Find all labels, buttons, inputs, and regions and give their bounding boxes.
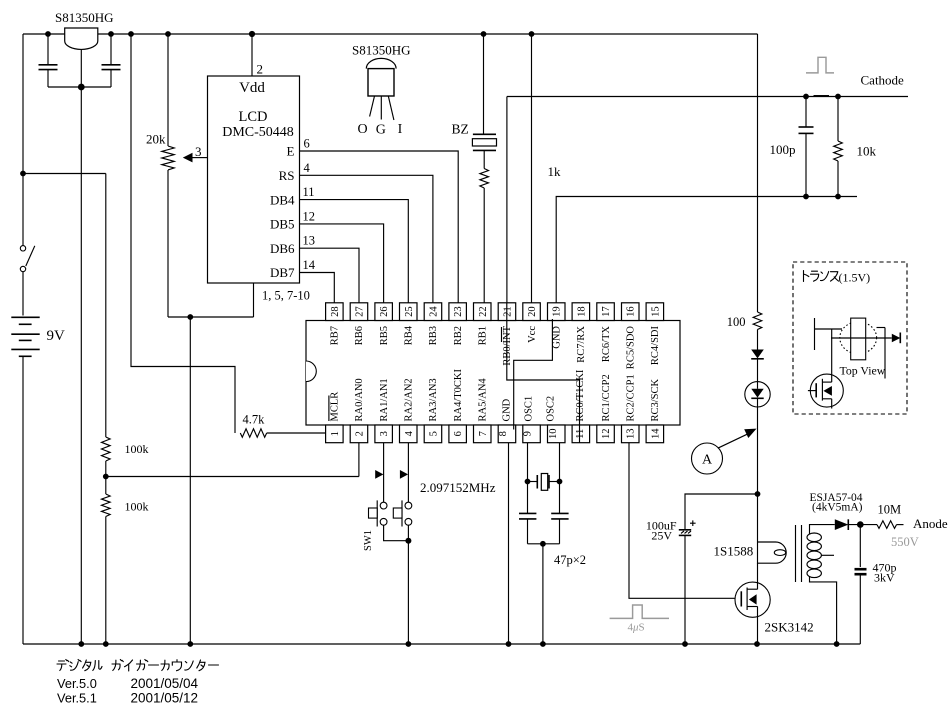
svg-text:RB7: RB7: [330, 326, 341, 345]
svg-text:1, 5, 7-10: 1, 5, 7-10: [262, 289, 310, 303]
svg-text:19: 19: [552, 306, 563, 317]
svg-text:1: 1: [330, 431, 341, 436]
svg-text:3: 3: [195, 144, 202, 159]
transformer pictorial bobbin: [851, 318, 866, 360]
svg-text:4: 4: [404, 430, 415, 436]
switch SW1a pushbutton: [380, 502, 387, 509]
svg-text:S81350HG: S81350HG: [352, 43, 411, 58]
svg-text:2001/05/12: 2001/05/12: [131, 691, 199, 706]
label transformer 1.5V (katakana drawn): [804, 271, 809, 282]
svg-text:OSC1: OSC1: [524, 396, 535, 422]
svg-text:GND: GND: [552, 326, 563, 349]
wire 0V ground rail: [23, 643, 860, 645]
wire PIC pin8 GND to 0V rail: [508, 443, 510, 644]
wire Vdd rail to LCD pin 2: [251, 34, 253, 76]
svg-text:RC0/T1CKI: RC0/T1CKI: [575, 369, 586, 421]
wire buzzer to 1k resistor: [483, 150, 485, 168]
svg-text:Top View: Top View: [840, 364, 886, 378]
svg-text:2: 2: [354, 431, 365, 436]
svg-text:E: E: [287, 144, 295, 159]
svg-text:6: 6: [304, 137, 310, 151]
svg-text:RS: RS: [279, 168, 295, 183]
svg-text:24: 24: [428, 306, 439, 317]
svg-text:G: G: [376, 123, 386, 138]
regulator TO-92 package head: [366, 58, 396, 68]
svg-text:S81350HG: S81350HG: [55, 10, 114, 25]
node crystal junction dots: [525, 479, 531, 485]
transformer pictorial axis wire: [831, 337, 892, 339]
battery BT 9V plates: [11, 316, 39, 318]
svg-text:28: 28: [330, 306, 341, 317]
svg-text:9V: 9V: [47, 328, 66, 344]
svg-text:RA4/T0CKI: RA4/T0CKI: [453, 368, 464, 421]
regulator TO-92 legs: [370, 96, 375, 117]
wire 100 to diode: [757, 330, 759, 350]
wire between 100k resistors: [105, 461, 107, 494]
svg-text:OSC2: OSC2: [546, 396, 557, 422]
svg-text:20: 20: [527, 306, 538, 317]
svg-text:RA0/AN0: RA0/AN0: [354, 378, 365, 421]
wire SW common to 0V rail: [407, 525, 409, 644]
svg-text:13: 13: [303, 234, 316, 248]
wire regulator gnd down to 0V rail: [80, 87, 82, 644]
node junction dots on +V rail: [45, 31, 51, 37]
svg-text:LCD: LCD: [239, 109, 268, 125]
transformer pictorial toroid: [840, 322, 877, 354]
svg-text:6: 6: [453, 431, 464, 436]
svg-text:Ver.5.0: Ver.5.0: [57, 676, 97, 691]
node cathode net dots: [803, 94, 809, 100]
svg-text:100k: 100k: [125, 442, 149, 456]
resistor R 1k: [480, 169, 489, 189]
resistor R 100k lower: [102, 494, 111, 516]
wire 1k to PIC pin22: [483, 188, 485, 303]
wire PIC pin13 to MOSFET gate: [629, 443, 741, 599]
svg-text:4μS: 4μS: [628, 622, 645, 634]
svg-text:DB7: DB7: [270, 265, 295, 280]
diode pictorial on axis: [892, 334, 901, 343]
svg-text:RB2: RB2: [453, 326, 464, 345]
wire switch to battery: [22, 272, 24, 316]
svg-text:10k: 10k: [857, 144, 877, 159]
svg-text:DMC-50448: DMC-50448: [222, 125, 294, 140]
svg-text:2: 2: [257, 62, 264, 77]
wire LCD DB4 to PIC pin25: [300, 200, 409, 303]
crystal X 2.097152MHz: [528, 481, 538, 483]
svg-text:RC7/RX: RC7/RX: [576, 326, 587, 363]
wire top +V rail: [23, 33, 758, 35]
svg-text:RC2/CCP1: RC2/CCP1: [625, 374, 636, 421]
title geiger counter (katakana drawn): [112, 660, 123, 671]
svg-text:20k: 20k: [146, 132, 166, 147]
svg-text:100k: 100k: [125, 500, 149, 514]
svg-text:7: 7: [478, 431, 489, 436]
wire left rail down to switch: [22, 34, 24, 246]
svg-text:DB5: DB5: [270, 217, 295, 232]
svg-text:RC5/SDO: RC5/SDO: [625, 326, 636, 370]
wire 4.7k to PIC pin1 MCLR: [267, 432, 326, 434]
svg-text:Vcc: Vcc: [527, 326, 538, 343]
transformer secondary winding: [807, 533, 821, 542]
node anode junction: [857, 521, 864, 528]
svg-text:RB6: RB6: [354, 326, 365, 345]
svg-text:(1.5V): (1.5V): [839, 271, 871, 285]
svg-text:1S1588: 1S1588: [714, 544, 754, 559]
label 100uF plus: [690, 522, 696, 524]
svg-text:14: 14: [650, 428, 661, 439]
wire PIC pin21 RB0 up: [506, 97, 508, 303]
potentiometer R 20k: [162, 146, 174, 170]
svg-text:O: O: [357, 122, 367, 137]
wire PIC pin4 down: [407, 443, 409, 503]
svg-text:1k: 1k: [548, 164, 562, 179]
wire primary node to 100uF: [685, 494, 758, 529]
svg-text:12: 12: [601, 429, 612, 440]
svg-text:5: 5: [428, 431, 439, 436]
ammeter pointer arrow: [718, 434, 748, 448]
svg-text:25: 25: [404, 306, 415, 317]
diode D 1S1588 capsule: [758, 542, 787, 563]
LED indicator: [745, 382, 770, 407]
wire PIC pin10 OSC2 down: [559, 443, 561, 514]
wire internal Vss tie pin19-pin8: [514, 319, 553, 430]
svg-text:10M: 10M: [878, 503, 902, 517]
wire pictorial right side: [877, 327, 886, 329]
svg-text:RB0/INT: RB0/INT: [502, 325, 513, 365]
wire divider tap to pin2 RA0: [106, 476, 359, 478]
transformer T core: [795, 525, 797, 582]
svg-text:(4kV5mA): (4kV5mA): [812, 502, 863, 514]
wire 100k lower to 0V rail: [105, 517, 107, 645]
PIC pin1 notch: [306, 361, 316, 382]
svg-text:8: 8: [498, 431, 509, 436]
wire PIC pin3 down: [383, 443, 385, 503]
svg-text:RA1/AN1: RA1/AN1: [379, 378, 390, 421]
dashed info box: [793, 262, 907, 414]
PIC bottom pin number boxes 1..14: [326, 425, 344, 443]
regulator TO-92 package body: [368, 69, 394, 96]
capacitor C 100uF electrolytic: [679, 529, 691, 531]
pulse symbol gate drive 4uS (grey): [610, 605, 669, 618]
node 47p common junction: [540, 541, 546, 547]
ammeter A circle: [692, 443, 723, 474]
LCD module DMC-50448 box: [208, 76, 300, 283]
transistor Q 2SK3142: [735, 582, 770, 617]
svg-text:13: 13: [626, 429, 637, 440]
svg-text:26: 26: [379, 306, 390, 317]
svg-text:A: A: [702, 453, 713, 468]
pot wiper arrow to LCD pin 3: [192, 157, 208, 159]
svg-text:Ver.5.1: Ver.5.1: [57, 691, 97, 706]
switch SW1b pushbutton: [405, 502, 412, 509]
svg-text:17: 17: [601, 306, 612, 317]
wire primary straight segment: [757, 494, 759, 564]
svg-text:14: 14: [303, 258, 316, 272]
wire PIC pin19 up and right: [556, 197, 857, 303]
pulse symbol cathode (grey): [806, 57, 834, 73]
svg-text:Vdd: Vdd: [239, 80, 265, 96]
wire LED to primary node: [757, 407, 759, 494]
regulator S81350HG body: [65, 28, 98, 49]
svg-text:550V: 550V: [891, 535, 919, 549]
svg-text:RC1/CCP2: RC1/CCP2: [601, 374, 612, 421]
capacitor output cap right plate pair: [110, 34, 112, 65]
wire 10M to Anode: [897, 524, 904, 526]
wire battery minus down to 0V rail: [22, 356, 24, 644]
svg-text:MCLR: MCLR: [330, 392, 341, 422]
buzzer BZ piezo element: [473, 133, 496, 135]
svg-text:DB4: DB4: [270, 192, 295, 207]
wire LCD gnd / pot bottom bus: [168, 316, 254, 318]
wire 20k pot bottom down: [167, 170, 169, 317]
svg-text:2SK3142: 2SK3142: [765, 620, 814, 635]
svg-text:11: 11: [575, 429, 586, 439]
resistor R 4.7k: [240, 429, 266, 437]
capacitor C 47p right: [551, 512, 568, 514]
svg-text:RB4: RB4: [403, 325, 414, 345]
svg-text:16: 16: [626, 306, 637, 317]
resistor R 100k upper: [102, 437, 111, 461]
switch S power: contacts and lever: [20, 246, 25, 251]
svg-text:23: 23: [453, 306, 464, 317]
resistor R 10M: [877, 521, 897, 529]
svg-text:18: 18: [576, 306, 587, 317]
arrow marker pin4: [400, 470, 408, 479]
wire secondary bottom lead: [810, 576, 837, 644]
svg-text:RA2/AN2: RA2/AN2: [403, 378, 414, 421]
node junction dots on 0V rail: [78, 641, 84, 647]
svg-text:Anode: Anode: [913, 516, 948, 531]
wire diode to LED: [757, 359, 759, 382]
node LCD gnd junction: [187, 314, 193, 320]
node regulator gnd junction: [78, 84, 85, 91]
resistor R 100: [753, 312, 762, 330]
wire LCD DB6 to PIC pin27: [300, 248, 360, 303]
wire LCD gnd to 0V rail: [189, 317, 191, 644]
diode D ESJA57-04: [835, 519, 849, 530]
capacitor C 100p: [805, 97, 807, 128]
svg-text:22: 22: [478, 306, 489, 317]
svg-text:9: 9: [523, 431, 534, 436]
diode D indicator series: [751, 350, 764, 359]
node gnd net dots: [803, 194, 809, 200]
svg-text:2.097152MHz: 2.097152MHz: [420, 480, 496, 495]
wire LCD gnd pin down: [253, 283, 255, 317]
wire cathode net horizontal: [507, 96, 908, 98]
svg-text:4.7k: 4.7k: [243, 413, 266, 427]
wire Vdd to MCLR network: [131, 34, 235, 433]
node primary top junction: [755, 491, 761, 497]
wire LCD RS to PIC pin24: [300, 175, 433, 302]
wire pictorial left hook: [814, 318, 816, 350]
svg-text:15: 15: [650, 306, 661, 317]
wire rail to buzzer: [483, 34, 485, 134]
PIC top pin number boxes 28..15: [326, 303, 344, 321]
svg-text:47p×2: 47p×2: [554, 553, 586, 567]
title digital (katakana drawn): [57, 660, 69, 671]
node tap on left rail: [20, 171, 26, 177]
wire 47p commons: [528, 543, 560, 545]
wire LCD DB5 to PIC pin26: [300, 224, 384, 303]
svg-text:DB6: DB6: [270, 241, 295, 256]
svg-text:3: 3: [379, 431, 390, 436]
node artifact dash: [814, 95, 830, 97]
wire diode to anode node: [848, 524, 877, 526]
node divider tap junction: [103, 474, 109, 480]
svg-text:BZ: BZ: [452, 122, 469, 137]
svg-text:RB5: RB5: [379, 326, 390, 345]
svg-text:10: 10: [548, 429, 559, 440]
svg-text:12: 12: [303, 209, 316, 223]
svg-text:GND: GND: [502, 398, 513, 421]
svg-text:RC6/TX: RC6/TX: [601, 326, 612, 363]
capacitor C 47p left: [519, 512, 536, 514]
wire SW1a bottom to common: [384, 525, 409, 541]
wire PIC pin20 Vcc to rail: [531, 34, 533, 303]
capacitor input cap left plate pair: [47, 34, 49, 65]
svg-text:Cathode: Cathode: [861, 73, 905, 88]
wire 47p common to 0V rail: [542, 544, 544, 644]
wire rail right drop: [757, 34, 759, 312]
transistor pictorial MOSFET: [810, 374, 843, 407]
svg-text:3kV: 3kV: [874, 571, 895, 585]
svg-text:RA3/AN3: RA3/AN3: [428, 378, 439, 421]
wire LCD E to PIC pin23: [300, 151, 459, 303]
svg-text:100: 100: [727, 315, 746, 329]
wire secondary top lead: [810, 525, 835, 535]
svg-text:RC3/SCK: RC3/SCK: [650, 378, 661, 421]
arrow marker pin3: [375, 470, 383, 479]
svg-text:100p: 100p: [770, 142, 796, 157]
svg-text:RC4/SDI: RC4/SDI: [650, 325, 661, 365]
wire cap commons to regulator gnd: [48, 86, 111, 88]
wire PIC pin9 OSC1 down: [527, 443, 529, 514]
PIC IC body: [306, 321, 680, 426]
wire LCD DB7 to PIC pin28: [300, 273, 335, 303]
svg-text:4: 4: [304, 161, 311, 175]
svg-text:RB3: RB3: [428, 326, 439, 345]
svg-text:21: 21: [502, 306, 513, 317]
svg-text:I: I: [398, 122, 403, 137]
node SW common junction: [405, 538, 411, 544]
svg-text:11: 11: [303, 185, 315, 199]
svg-text:RB1: RB1: [477, 326, 488, 345]
svg-text:SW1: SW1: [363, 530, 374, 551]
svg-text:25V: 25V: [651, 529, 672, 543]
resistor R 10k: [837, 97, 839, 142]
svg-text:2001/05/04: 2001/05/04: [131, 676, 199, 691]
svg-text:RA5/AN4: RA5/AN4: [477, 378, 488, 422]
wire rail to 20k pot: [167, 34, 169, 146]
wire regulator ground lead: [80, 49, 82, 87]
wire secondary tap: [821, 554, 834, 556]
wire tap to divider: [23, 173, 106, 175]
svg-text:27: 27: [354, 306, 365, 317]
wire internal RB0 to RC0 tie: [507, 303, 580, 443]
capacitor C 470p 3kV: [859, 525, 861, 567]
